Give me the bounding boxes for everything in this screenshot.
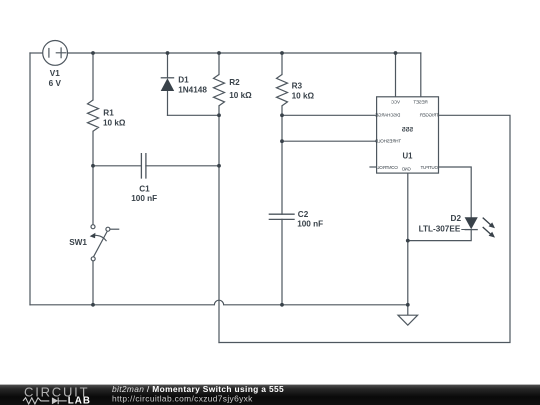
svg-text:http://circuitlab.com/cxzud7sj: http://circuitlab.com/cxzud7sjy6yxk <box>112 393 253 403</box>
LED D2 light arrow 1 <box>483 218 495 229</box>
resistor R3 <box>277 75 288 106</box>
label R3 <box>292 82 315 101</box>
svg-text:VCC: VCC <box>391 99 400 104</box>
capacitor C1 <box>141 153 146 179</box>
node top rail / R2 <box>217 51 221 55</box>
label C2 <box>297 210 323 228</box>
wire R1 top lead <box>92 53 94 100</box>
svg-text:bit2man / Momentary Switch usi: bit2man / Momentary Switch using a 555 <box>112 384 284 394</box>
label R1 <box>103 108 126 127</box>
capacitor C2 <box>269 214 295 219</box>
svg-text:C2: C2 <box>298 210 309 219</box>
ground symbol <box>398 305 418 325</box>
node LED return junction <box>406 239 410 243</box>
LED D2 light arrow 2 <box>483 227 495 238</box>
LED D2 <box>461 217 478 229</box>
switch SW1 arrowhead <box>90 233 96 238</box>
svg-text:100 nF: 100 nF <box>297 220 323 229</box>
wire trigger column R2 bottom down through C1 row to bottom route <box>218 106 220 343</box>
svg-text:D1: D1 <box>178 76 189 85</box>
wire switch bottom to ground rail <box>92 261 94 305</box>
wire CONTROL pin stub <box>370 166 377 168</box>
svg-text:10 kΩ: 10 kΩ <box>103 119 126 128</box>
svg-text:GND: GND <box>402 167 411 172</box>
svg-text:CONTROL: CONTROL <box>377 165 398 170</box>
wire GND pin down to ground rail <box>407 173 409 305</box>
wire C1 left lead <box>93 165 141 167</box>
svg-text:SW1: SW1 <box>69 238 87 247</box>
wire top rail from V1 to RESET pin <box>67 52 420 54</box>
node C2 ground junction <box>280 303 284 307</box>
label D1 <box>178 76 207 95</box>
wire C1 row to switch top <box>92 166 94 225</box>
svg-text:6 V: 6 V <box>49 79 62 88</box>
svg-text:R2: R2 <box>229 78 240 87</box>
wire C1 right lead to trigger column <box>146 165 219 167</box>
node C1 left junction <box>91 164 95 168</box>
voltage source V1 <box>43 41 68 66</box>
svg-text:1N4148: 1N4148 <box>178 85 207 94</box>
svg-text:10 kΩ: 10 kΩ <box>292 92 315 101</box>
node top rail / R1 <box>91 51 95 55</box>
svg-text:LTL-307EE: LTL-307EE <box>419 225 461 234</box>
label C1 <box>131 184 157 203</box>
node top rail / R3 <box>280 51 284 55</box>
IC U1 555 box <box>377 97 439 173</box>
wire R3 bottom to C2 and ground rail <box>281 106 283 305</box>
resistor R1 <box>88 100 99 131</box>
wire R3 top lead <box>281 53 283 75</box>
wire trigger bottom route and right riser to TRIGGER pin <box>219 115 510 342</box>
node switch ground junction <box>91 303 95 307</box>
svg-text:DISCHARGE: DISCHARGE <box>375 113 400 118</box>
svg-text:THRESHOLD: THRESHOLD <box>375 138 401 143</box>
svg-text:V1: V1 <box>50 69 60 78</box>
svg-text:555: 555 <box>402 126 414 133</box>
svg-text:10 kΩ: 10 kΩ <box>229 91 252 100</box>
node top rail / VCC <box>394 51 398 55</box>
svg-text:R3: R3 <box>292 82 303 91</box>
wire R2 top lead <box>218 53 220 75</box>
label R2 <box>229 78 252 100</box>
svg-text:LAB: LAB <box>68 396 91 405</box>
wire D1 top lead <box>167 53 169 78</box>
node D1 R2 junction <box>217 113 221 117</box>
wire R1 bottom to C1 row <box>92 131 94 166</box>
wire ground bottom rail with hop over trigger column <box>30 300 408 305</box>
wire RESET pin riser <box>420 53 422 97</box>
node C1 right junction <box>217 164 221 168</box>
wire D1 bottom lead <box>167 91 169 115</box>
wire DISCHARGE row <box>282 114 377 116</box>
node top rail / D1 <box>166 51 170 55</box>
label V1 value <box>49 69 62 88</box>
footer bar <box>0 385 540 405</box>
node threshold junction <box>280 139 284 143</box>
svg-text:D2: D2 <box>451 214 462 223</box>
svg-text:C1: C1 <box>139 184 150 193</box>
svg-text:OUTPUT: OUTPUT <box>420 165 438 170</box>
node R3 discharge junction <box>280 113 284 117</box>
wire OUTPUT row to LED column <box>439 167 472 217</box>
svg-text:U1: U1 <box>403 152 414 161</box>
node gnd rail end junction <box>406 303 410 307</box>
svg-text:R1: R1 <box>103 108 114 117</box>
wire V1 left lead <box>30 52 43 54</box>
resistor R2 <box>214 75 225 106</box>
svg-text:TRIGGER: TRIGGER <box>420 113 439 118</box>
wire LED cathode down and left to GND column <box>408 230 471 241</box>
logo diode triangle <box>52 397 58 404</box>
wire THRESHOLD row <box>282 140 377 142</box>
svg-text:100 nF: 100 nF <box>131 194 157 203</box>
logo resistor-diode glyph <box>23 397 67 404</box>
wire left rail down <box>29 53 31 305</box>
svg-text:RESET: RESET <box>413 99 427 104</box>
wire D1 anode row to R2 column <box>168 114 220 116</box>
label D2 <box>419 214 462 234</box>
diode D1 <box>161 78 175 91</box>
wire VCC pin riser <box>395 53 397 97</box>
switch SW1 <box>91 225 119 261</box>
